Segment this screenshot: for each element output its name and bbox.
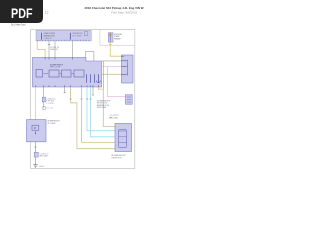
blower switch pole: [126, 60, 128, 76]
svg-text:FUSE BLK: FUSE BLK: [114, 39, 122, 41]
resistor module inner mark: [127, 97, 131, 102]
blower motor inner box: [32, 125, 39, 130]
wire: blower motor to ground: [35, 142, 37, 165]
svg-text:C1 BLK 12: C1 BLK 12: [44, 38, 52, 40]
blower motor resistor block R2: [115, 124, 132, 152]
fuse element: [109, 34, 111, 36]
blower switch pin tick top: [122, 55, 125, 57]
wire: fuse feed to blower switch (yellow): [110, 42, 121, 56]
wire: grey stub 1: [64, 87, 66, 93]
band pin dash row: [37, 39, 91, 41]
splice symbol S201: [43, 107, 45, 110]
svg-text:GRY CONN: GRY CONN: [39, 156, 48, 158]
band pin tick 2: [69, 33, 71, 40]
switch contact stroke 2: [89, 74, 91, 83]
switch linkage dashes: [44, 73, 74, 75]
switch contact stroke 1: [85, 74, 87, 83]
band pin tick 1: [41, 33, 43, 40]
connector above resistor block: [110, 117, 112, 119]
wire: tan B to resistor block: [82, 87, 115, 142]
fuse F1: [108, 33, 113, 42]
fuse block container: [100, 30, 135, 46]
svg-text:PDF: PDF: [11, 6, 33, 21]
resistor coil rung 2: [119, 136, 127, 138]
band relay glyph: [84, 32, 87, 36]
control assembly bottom pin ticks: [35, 85, 98, 87]
svg-text:I/P CONN: I/P CONN: [72, 36, 82, 38]
wire: band drop 4 (grey): [72, 41, 74, 58]
blower switch S1: [122, 55, 134, 83]
svg-text:Fig 1: Heater Circuit: Fig 1: Heater Circuit: [11, 23, 26, 26]
faint page mark: [45, 11, 48, 14]
resistor module R1: [126, 95, 133, 104]
diagram frame: [31, 30, 135, 169]
switch contact stroke 3: [93, 74, 95, 83]
connector tick on ground wire: [34, 146, 36, 148]
wire: band drop 2 (grey): [48, 41, 50, 58]
svg-text:OFF LO HI: OFF LO HI: [50, 67, 61, 69]
PDF badge: [0, 0, 43, 23]
svg-text:M: M: [34, 127, 36, 130]
wire: tan from control to resistor block: [98, 87, 115, 127]
blower switch contact 3: [122, 73, 127, 75]
svg-text:W/ CAGE: W/ CAGE: [48, 122, 57, 125]
connector band (instrument panel harness): [36, 30, 91, 41]
inline connector box C1: [42, 97, 45, 102]
page background: [0, 0, 149, 198]
wire: cyan 2 to resistor block: [90, 87, 115, 137]
resistor coil outline: [119, 130, 127, 148]
fuse internal lead: [109, 33, 111, 42]
control assembly inner switch box 3: [62, 70, 72, 77]
svg-text:G200: G200: [39, 166, 44, 168]
svg-text:S201: S201: [46, 107, 53, 109]
tick on fuse output wire: [109, 44, 111, 46]
stub 1 end tick: [64, 92, 66, 94]
blower switch contact 2: [122, 65, 127, 67]
wire: tan A to resistor block: [71, 87, 115, 149]
ground G200: [33, 165, 37, 168]
stub 2 end tick: [92, 94, 94, 96]
svg-text:Print Date: 8/6/2019: Print Date: 8/6/2019: [111, 11, 137, 15]
svg-text:SIDE CASE: SIDE CASE: [97, 106, 107, 109]
wire: grey drop with connectors: [43, 87, 45, 108]
wire: band to control head (yellow, jog): [37, 41, 45, 58]
wire: pink to blower switch and resistor: [102, 66, 126, 96]
blower motor lower tick: [35, 132, 37, 135]
control assembly inner switch box 1: [36, 70, 43, 77]
inline connector ticks row: [70, 98, 92, 100]
blower motor M1: [27, 120, 47, 142]
svg-text:BLK CONN: BLK CONN: [110, 117, 119, 119]
heater control assembly U1: [33, 58, 102, 87]
connector tick on band drop 2: [48, 44, 50, 46]
wire: tan to blower switch: [102, 73, 122, 75]
blower switch contact 1: [122, 60, 127, 62]
svg-text:RESISTOR: RESISTOR: [112, 157, 123, 159]
switch wiper symbol: [96, 81, 100, 83]
control assembly top pin ticks: [45, 58, 72, 60]
svg-text:0.8 BLK 51: 0.8 BLK 51: [50, 49, 58, 51]
wire: grey drop from bus: [102, 61, 104, 89]
svg-text:CONN: CONN: [46, 103, 54, 105]
control assembly inner switch box 4: [74, 70, 84, 77]
switch contact stroke 4: [97, 74, 99, 83]
wire: grey stub 2: [92, 87, 94, 95]
wire: cyan 1 to resistor block: [87, 87, 115, 131]
inline connector box on ground wire: [34, 152, 38, 157]
resistor coil rung 1: [119, 130, 127, 132]
control assembly inner switch box 2: [49, 70, 59, 77]
svg-text:2002 Chevrolet S10 Pickup 4.3L: 2002 Chevrolet S10 Pickup 4.3L Eng VIN W: [85, 6, 144, 10]
wire: cyan to blower motor: [34, 87, 36, 120]
wire: band drop 3 (grey): [54, 41, 56, 58]
resistor coil rung 3: [119, 141, 127, 143]
wire: grey to blower switch: [102, 60, 122, 62]
wire jog over step notch: [85, 52, 94, 61]
